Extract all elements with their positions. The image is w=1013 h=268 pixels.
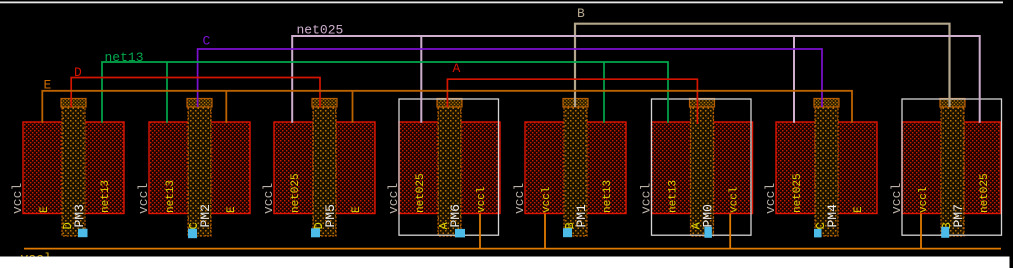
wire net025 (lavender): PM5.left, PM6.left, PM4.left, PM7.right — [292, 36, 980, 123]
svg-text:E: E — [351, 206, 363, 213]
svg-text:A: A — [453, 61, 461, 76]
svg-text:vccl: vccl — [541, 187, 553, 213]
transistor PM4 — [776, 99, 877, 237]
wire net D (red): gate PM3 to gate PM5 — [71, 78, 320, 108]
svg-text:E: E — [39, 206, 51, 213]
wire vccl bus (orange bottom rail) — [24, 248, 1001, 250]
top window edge line — [0, 2, 1003, 4]
svg-text:B: B — [577, 6, 585, 21]
svg-text:D: D — [74, 65, 82, 80]
svg-text:vccl: vccl — [639, 183, 654, 214]
bottom window edge (white band) — [0, 257, 1010, 268]
svg-text:net025: net025 — [290, 173, 302, 213]
svg-text:net13: net13 — [165, 180, 177, 213]
svg-text:E: E — [44, 78, 52, 93]
transistor PM5 — [274, 99, 375, 237]
transistor PM6 — [399, 99, 500, 237]
svg-text:net13: net13 — [105, 50, 144, 65]
svg-text:vccl: vccl — [512, 183, 527, 214]
transistor PM1 — [525, 99, 626, 237]
svg-text:vccl: vccl — [386, 183, 401, 214]
svg-text:PM3: PM3 — [72, 204, 87, 227]
gate contact marker of PM3 — [78, 229, 88, 238]
svg-text:E: E — [226, 206, 238, 213]
svg-text:PM5: PM5 — [323, 204, 338, 227]
svg-text:vccl: vccl — [918, 187, 930, 213]
svg-text:PM4: PM4 — [825, 204, 840, 228]
svg-text:vccl: vccl — [763, 183, 778, 214]
wire net A (red): gate PM6 to gate PM0 — [447, 79, 697, 124]
svg-text:net025: net025 — [297, 23, 344, 38]
selection box around PM6 — [399, 99, 499, 235]
svg-text:net025: net025 — [792, 173, 804, 213]
gate contact marker of PM7 — [941, 227, 949, 238]
gate contact marker of PM4 — [814, 229, 822, 238]
svg-text:net13: net13 — [668, 180, 680, 213]
svg-text:net13: net13 — [100, 180, 112, 213]
svg-text:net13: net13 — [602, 180, 614, 213]
gate contact marker of PM0 — [704, 227, 712, 238]
gate contact marker of PM1 — [563, 228, 572, 237]
transistor PM0 — [652, 99, 753, 237]
vccl taps: PM6.right, PM1.left, PM0.right, PM7.left down to bus — [480, 214, 921, 249]
svg-text:E: E — [853, 206, 865, 213]
svg-text:PM7: PM7 — [951, 204, 966, 227]
svg-text:C: C — [203, 34, 211, 49]
transistor PM7 — [902, 99, 1001, 237]
svg-text:net025: net025 — [415, 173, 427, 213]
transistor PM2 — [149, 99, 250, 237]
svg-text:vccl: vccl — [261, 183, 276, 214]
svg-text:PM0: PM0 — [701, 204, 716, 227]
wire net13 (green): PM3.right, PM2.left, PM1.right, PM0.left — [102, 62, 668, 123]
gate contact marker of PM5 — [311, 228, 320, 237]
gate contact marker of PM6 — [455, 229, 465, 238]
selection box around PM7 — [902, 99, 1002, 235]
wire net C (purple): gate PM2 to gate PM4 — [198, 49, 822, 107]
gate contact marker of PM2 — [188, 229, 197, 239]
svg-text:vccl: vccl — [136, 183, 151, 214]
transistor PM3 — [23, 99, 124, 237]
svg-text:vccl: vccl — [476, 187, 488, 213]
wire net B (tan): gate PM1 to gate PM7 — [575, 24, 950, 107]
selection box around PM0 — [652, 99, 752, 235]
svg-text:PM1: PM1 — [574, 204, 589, 228]
svg-text:net025: net025 — [979, 173, 991, 213]
svg-text:vccl: vccl — [10, 183, 25, 214]
svg-text:PM2: PM2 — [198, 204, 213, 227]
svg-text:vccl: vccl — [729, 187, 741, 213]
wire net E (orange): PM3.left, PM2.right, PM5.right, PM4.right — [42, 91, 852, 123]
svg-text:vccl: vccl — [889, 183, 904, 214]
svg-text:PM6: PM6 — [448, 204, 463, 227]
